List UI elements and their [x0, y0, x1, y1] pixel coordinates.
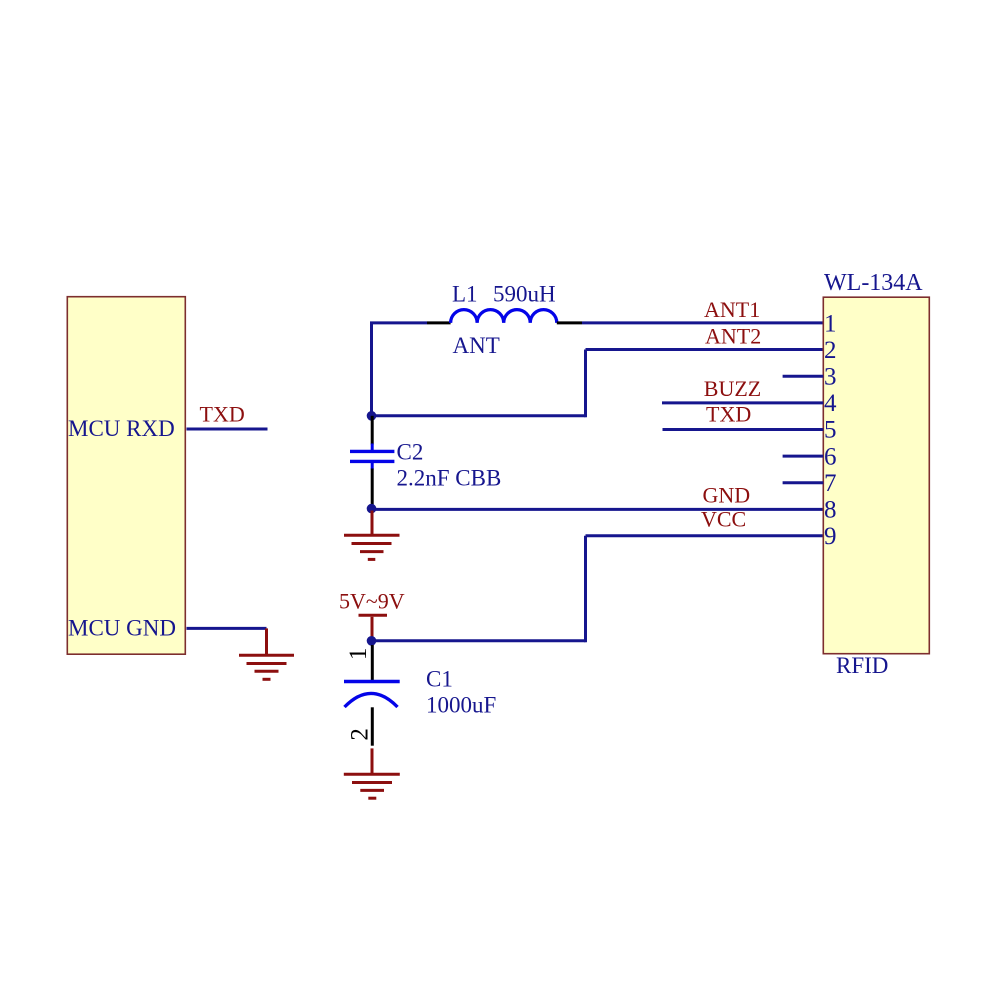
pin number 1	[824, 310, 837, 337]
wire MCU GND to ground	[187, 627, 267, 630]
wire ANT net: horizontal to inductor	[370, 321, 427, 324]
svg-text:BUZZ: BUZZ	[704, 376, 761, 401]
wire VCC vertical riser	[584, 536, 587, 643]
label C2 designator	[397, 440, 424, 465]
net label BUZZ	[704, 376, 761, 401]
svg-text:GND: GND	[703, 483, 751, 508]
svg-text:ANT2: ANT2	[705, 324, 761, 349]
inductor L1 pin 1 lead	[427, 321, 451, 324]
inductor L1 pin 2 lead	[557, 321, 582, 324]
pin number 9	[824, 523, 837, 550]
power bar symbol 5V~9V	[359, 615, 388, 641]
ground (MCU GND)	[239, 628, 294, 679]
capacitor C2 pin 2 lead	[371, 469, 374, 509]
node A junction (ANT2 net at C2 top)	[367, 411, 377, 421]
svg-text:1: 1	[345, 648, 372, 661]
wire GND net to pin 8	[372, 508, 824, 511]
wire TXD to pin 5	[663, 428, 824, 431]
capacitor C1 pin 2 lead	[371, 707, 374, 745]
wire BUZZ to pin 4	[662, 401, 823, 404]
svg-text:TXD: TXD	[200, 401, 245, 426]
svg-text:5V~9V: 5V~9V	[339, 589, 405, 614]
svg-text:ANT: ANT	[453, 333, 500, 358]
wire ANT2 to pin 2	[586, 348, 824, 351]
svg-text:MCU RXD: MCU RXD	[68, 416, 175, 441]
svg-text:7: 7	[824, 470, 837, 497]
label 2.2nF CBB value	[397, 466, 502, 491]
power rail 5V~9V label	[339, 589, 405, 614]
pin number 2	[824, 337, 837, 364]
label C1 designator	[426, 667, 453, 692]
svg-text:RFID: RFID	[836, 653, 888, 678]
MCU GND pin name	[68, 616, 176, 641]
svg-text:9: 9	[824, 523, 837, 550]
MCU RXD pin name	[68, 416, 175, 441]
svg-text:C1: C1	[426, 667, 453, 692]
inductor L1	[451, 310, 557, 323]
svg-text:TXD: TXD	[706, 401, 751, 426]
pin number 3	[824, 363, 837, 390]
svg-text:WL-134A: WL-134A	[824, 270, 923, 296]
wire TXD (from MCU RXD pin)	[187, 428, 268, 431]
net label GND	[703, 483, 751, 508]
svg-text:VCC: VCC	[701, 507, 746, 532]
label L1 designator	[452, 282, 478, 307]
svg-text:590uH: 590uH	[493, 282, 556, 307]
pin number 5	[824, 417, 837, 444]
pin number 8	[824, 497, 837, 524]
net name ANT	[453, 333, 500, 358]
net label ANT2	[705, 324, 761, 349]
wire ANT net: vertical from L1 left down to node A	[370, 323, 373, 416]
svg-text:8: 8	[824, 497, 837, 524]
label 590uH value	[493, 282, 556, 307]
MCU connector box (left part body)	[67, 297, 185, 655]
wire VCC horizontal from node C	[372, 639, 586, 642]
pin number 7	[824, 470, 837, 497]
capacitor C1 pin 2 number	[347, 728, 374, 741]
svg-text:5: 5	[824, 417, 837, 444]
pin 6 stub	[783, 455, 824, 458]
svg-text:1: 1	[824, 310, 837, 337]
svg-text:2.2nF CBB: 2.2nF CBB	[397, 466, 502, 491]
svg-text:2: 2	[347, 728, 374, 741]
wire VCC to pin 9	[586, 534, 824, 537]
part name WL-134A	[824, 270, 923, 296]
net label VCC	[701, 507, 746, 532]
pin 7 stub	[783, 481, 824, 484]
ground (C1)	[344, 748, 400, 798]
capacitor C2 pin 1 lead	[371, 416, 374, 445]
svg-text:ANT1: ANT1	[704, 297, 760, 322]
part type RFID	[836, 653, 888, 678]
svg-text:C2: C2	[397, 440, 424, 465]
svg-text:3: 3	[824, 363, 837, 390]
wire ANT2 vertical riser	[584, 350, 587, 418]
pin number 4	[824, 390, 837, 417]
capacitor C2	[350, 444, 394, 470]
svg-text:L1: L1	[452, 282, 478, 307]
RFID connector box (part body)	[823, 297, 929, 654]
wire pin1 to L1	[582, 321, 823, 324]
ground (C2)	[344, 511, 400, 560]
pin number 6	[824, 443, 837, 470]
label 1000uF value	[426, 693, 496, 718]
wire ANT2 horizontal from node A	[372, 414, 586, 417]
capacitor C1 pin 1 number	[345, 648, 372, 661]
net label ANT1	[704, 297, 760, 322]
svg-text:4: 4	[824, 390, 837, 417]
node B junction (GND net at C2 bottom)	[367, 504, 377, 514]
capacitor C1 (polarized)	[344, 682, 400, 708]
pin 3 stub	[783, 375, 824, 378]
svg-text:6: 6	[824, 443, 837, 470]
svg-text:1000uF: 1000uF	[426, 693, 496, 718]
capacitor C1 pin 1 lead	[371, 645, 374, 680]
net label TXD (left)	[200, 401, 245, 426]
svg-text:MCU GND: MCU GND	[68, 616, 176, 641]
svg-text:2: 2	[824, 337, 837, 364]
net label TXD (right)	[706, 401, 751, 426]
node C junction (VCC net at C1 top)	[367, 636, 377, 646]
